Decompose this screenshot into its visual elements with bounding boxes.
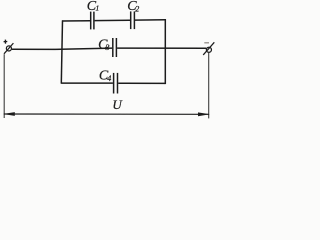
- capacitor C3 plates: [112, 38, 114, 57]
- dimension extension line right: [208, 53, 210, 118]
- wire: left bracket vertical: [61, 20, 62, 83]
- wire: top branch middle segment (C1 to C2): [95, 19, 130, 21]
- capacitor C1 plates: [90, 12, 92, 30]
- capacitor C4 plates: [113, 73, 115, 94]
- dimension arrowhead left: [3, 112, 15, 116]
- capacitor C2 plates: [130, 11, 132, 29]
- terminal right: slash: [203, 42, 214, 55]
- wire: right bracket vertical: [164, 19, 166, 84]
- svg-text:3: 3: [105, 43, 110, 52]
- svg-text:4: 4: [107, 74, 111, 83]
- svg-text:U: U: [112, 97, 123, 112]
- svg-text:1: 1: [96, 4, 100, 13]
- terminal left: circle: [6, 46, 11, 51]
- terminal left: slash: [4, 43, 13, 54]
- plus sign at left terminal: [4, 40, 8, 44]
- wire: middle right segment from C3 to right terminal: [117, 47, 206, 49]
- dimension line U: [4, 113, 209, 115]
- dimension extension line left: [3, 54, 5, 118]
- wire: top branch right segment (C2 to bracket corner): [135, 19, 165, 21]
- svg-text:2: 2: [135, 5, 139, 14]
- wire: bottom branch left segment (corner to C4): [61, 82, 113, 84]
- minus sign (faint) at right terminal: [204, 42, 209, 44]
- dimension arrowhead right: [198, 112, 210, 116]
- wire: middle left segment from left terminal to C3: [12, 48, 112, 49]
- wire: top branch left segment (bracket corner to C1): [62, 20, 90, 22]
- terminal right: circle: [206, 47, 211, 52]
- wire: bottom branch right segment (C4 to corner): [118, 82, 165, 84]
